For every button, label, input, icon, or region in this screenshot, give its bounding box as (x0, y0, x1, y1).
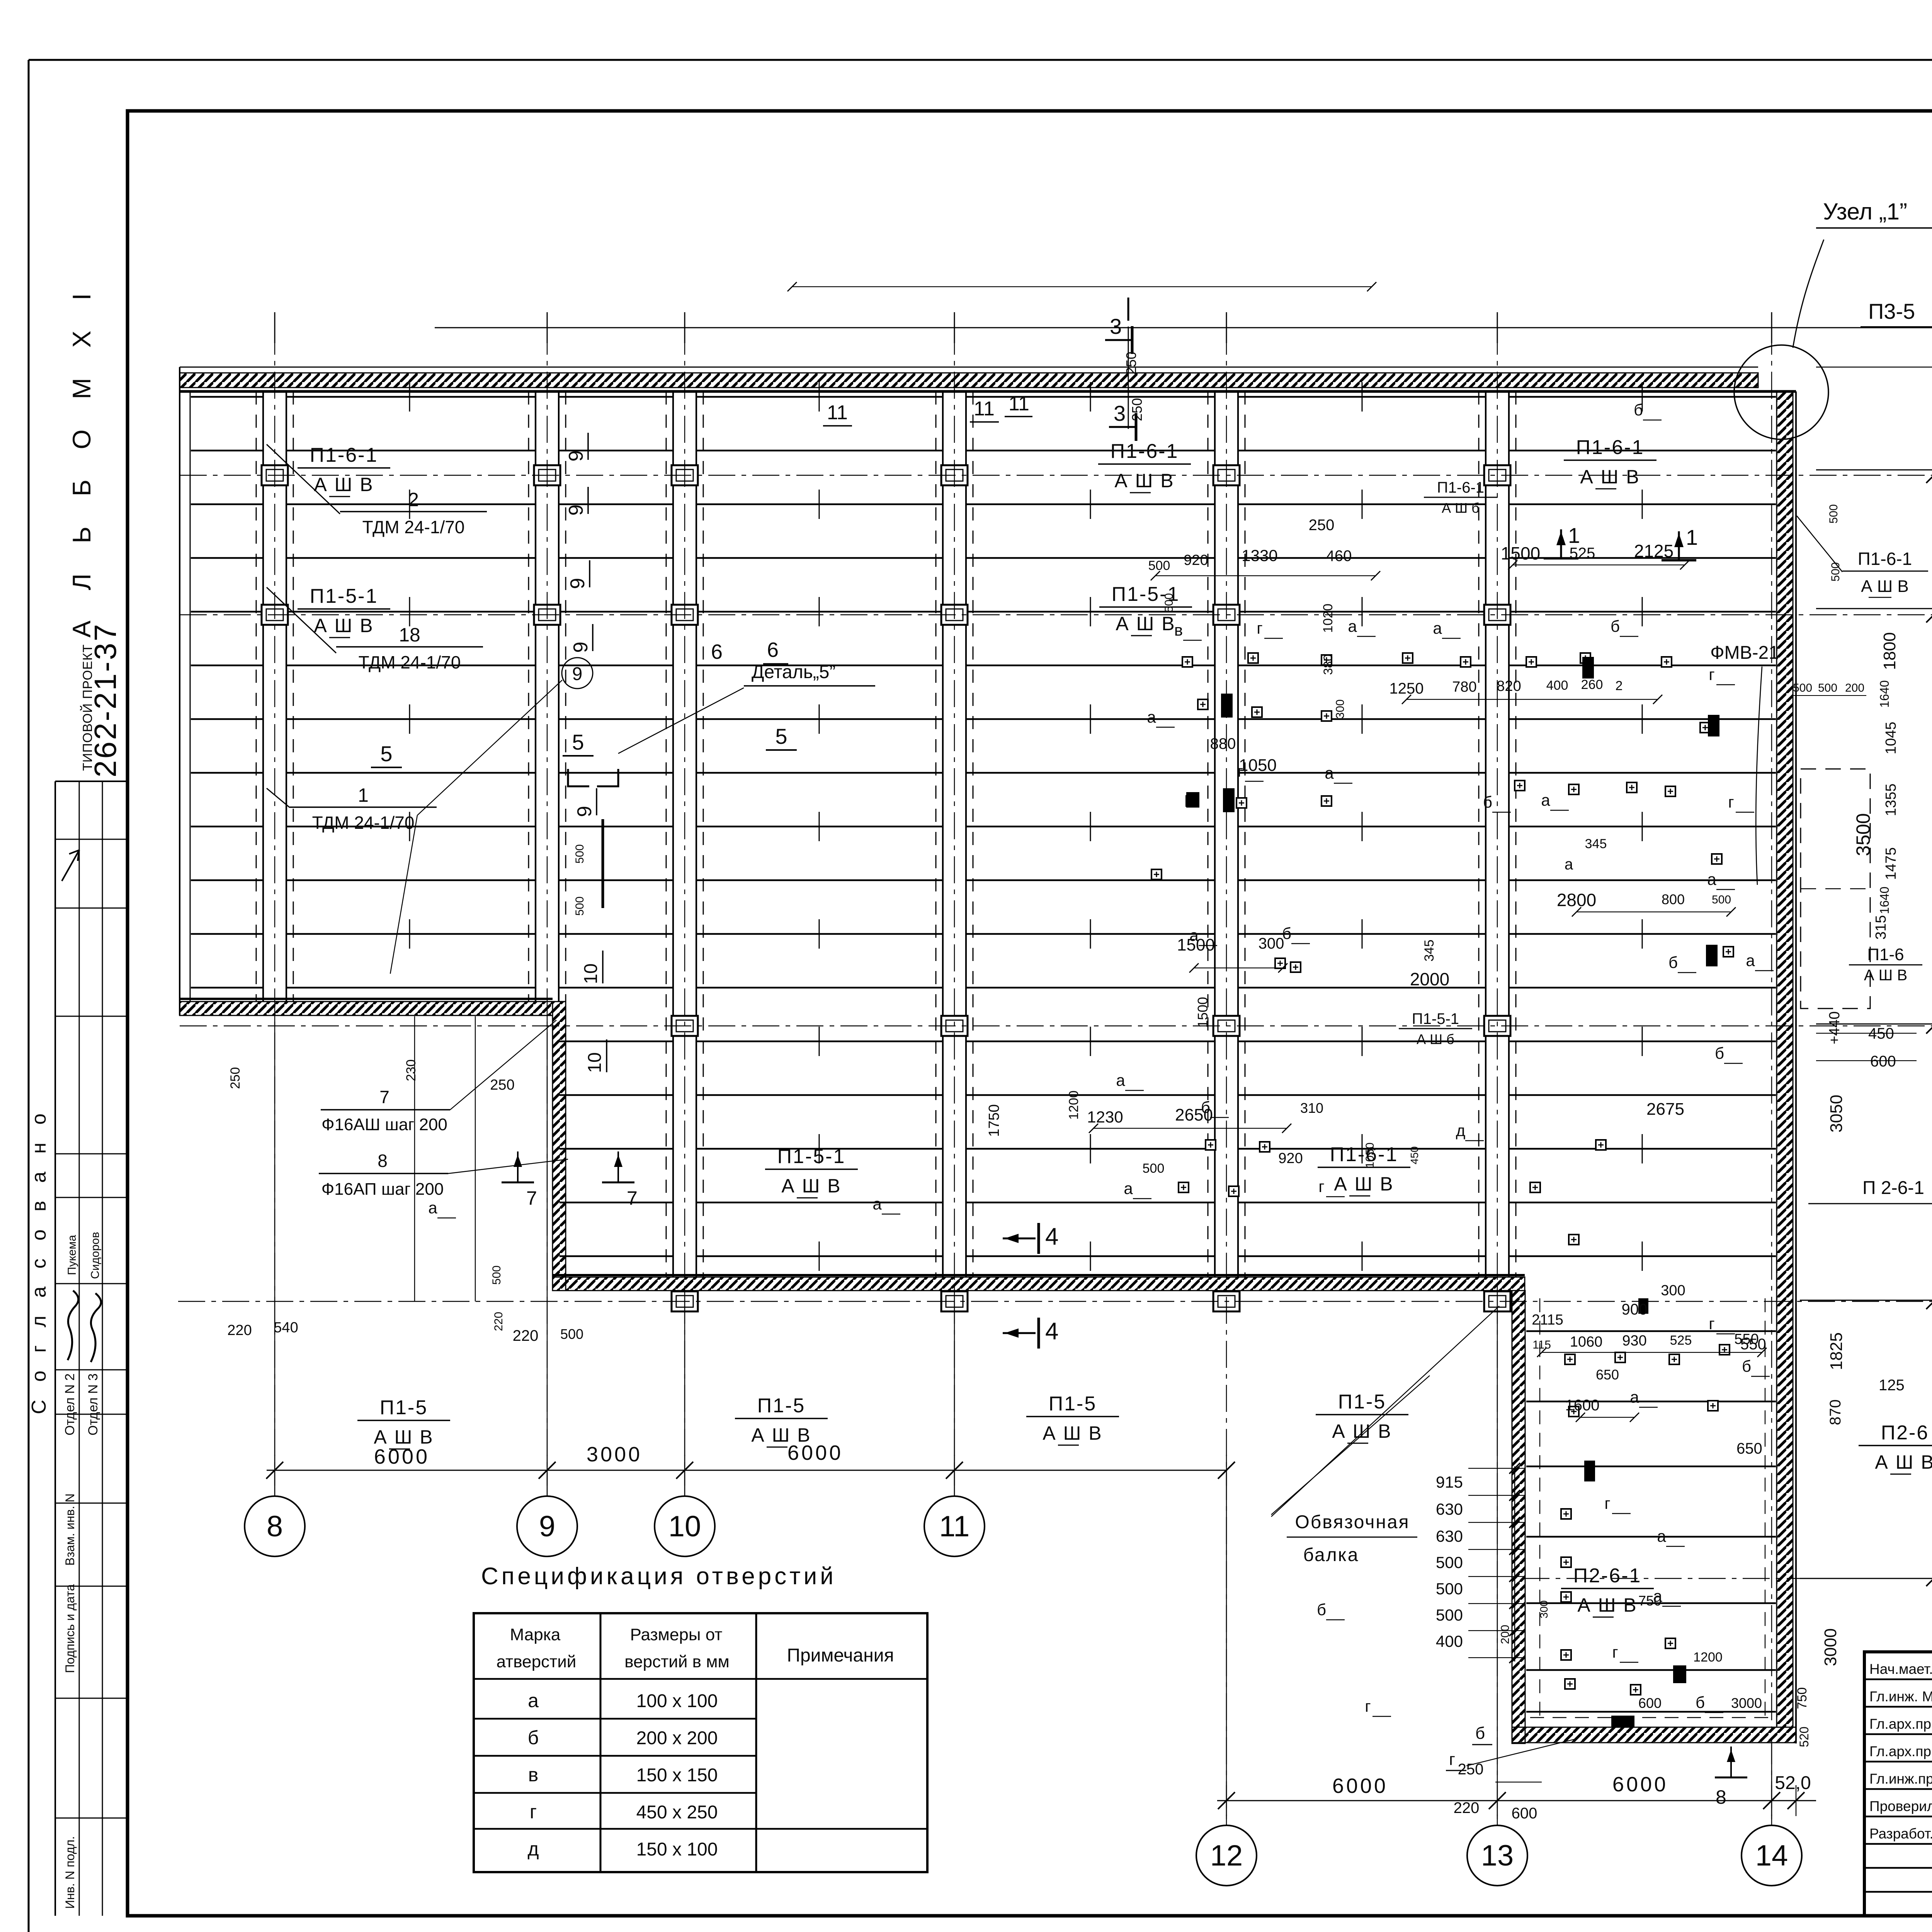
svg-text:630: 630 (1436, 1527, 1463, 1545)
svg-text:Ф16АШ шаг 200: Ф16АШ шаг 200 (321, 1115, 447, 1134)
svg-text:ТДМ 24-1/70: ТДМ 24-1/70 (359, 652, 461, 672)
svg-text:Разработ.: Разработ. (1869, 1826, 1932, 1842)
detail 5 bracket marks (568, 769, 618, 786)
section 3-3 line (1128, 327, 1129, 429)
svg-text:ТДМ 24-1/70: ТДМ 24-1/70 (362, 517, 465, 537)
svg-text:П1-5-1: П1-5-1 (1412, 1010, 1459, 1027)
axis 13 (1497, 328, 1498, 1825)
svg-text:г: г (1257, 619, 1262, 637)
svg-text:18: 18 (399, 624, 420, 646)
svg-text:5: 5 (775, 724, 787, 748)
svg-text:г: г (530, 1801, 537, 1823)
svg-text:ФМВ-21: ФМВ-21 (1710, 643, 1779, 663)
svg-text:А Ш В: А Ш В (1332, 1420, 1392, 1442)
svg-text:3000: 3000 (1731, 1695, 1762, 1711)
building top wall band (180, 373, 1758, 388)
svg-text:230: 230 (404, 1060, 418, 1082)
svg-text:б: б (1668, 953, 1678, 971)
wing dashed inset lines (1539, 1298, 1540, 1721)
svg-text:500: 500 (1436, 1580, 1463, 1598)
svg-text:г: г (1365, 1697, 1371, 1715)
svg-text:200: 200 (1845, 682, 1864, 694)
section mark 7/8 (617, 1151, 619, 1182)
svg-text:500: 500 (490, 1265, 503, 1285)
svg-text:9: 9 (565, 505, 587, 516)
svg-text:3050: 3050 (1827, 1095, 1846, 1133)
svg-text:3000: 3000 (587, 1443, 642, 1466)
svg-text:а: а (528, 1690, 539, 1711)
svg-text:250: 250 (490, 1077, 514, 1093)
svg-text:650: 650 (1596, 1367, 1619, 1383)
svg-text:д: д (527, 1838, 539, 1860)
left margin strip table (55, 781, 128, 782)
svg-text:б: б (1696, 1693, 1705, 1711)
axis E (180, 475, 1932, 476)
svg-text:1330: 1330 (1242, 546, 1277, 565)
svg-text:б: б (1282, 924, 1291, 942)
main block bottom wall band (553, 1277, 1525, 1291)
column axis strips (263, 391, 1509, 1277)
svg-text:9: 9 (570, 642, 592, 653)
svg-text:А Ш В: А Ш В (751, 1424, 811, 1446)
svg-text:б: б (1634, 401, 1643, 419)
svg-text:880: 880 (1210, 735, 1236, 752)
extension line (414, 1016, 415, 1301)
svg-text:150 х 150: 150 х 150 (636, 1765, 718, 1786)
svg-text:2125: 2125 (1634, 541, 1673, 561)
svg-text:125: 125 (1879, 1377, 1905, 1394)
embedded plate marks cluster bay 11-12 (1182, 657, 1192, 667)
svg-text:1355: 1355 (1883, 784, 1899, 816)
svg-text:П1-6: П1-6 (1867, 945, 1904, 964)
stem Г (1816, 1024, 1932, 1025)
section mark 1 (1678, 531, 1680, 560)
svg-text:250: 250 (1309, 517, 1335, 534)
svg-text:7: 7 (627, 1187, 638, 1209)
spec table (474, 1613, 927, 1872)
svg-text:б: б (1475, 1724, 1485, 1743)
detail circle Узел 1 (1734, 345, 1828, 439)
section flags (1105, 339, 1132, 341)
svg-text:315: 315 (1873, 915, 1889, 939)
svg-text:5: 5 (380, 742, 392, 766)
left block bottom wall band (180, 1002, 553, 1015)
svg-text:Пукема: Пукема (66, 1235, 78, 1275)
svg-text:820: 820 (1497, 678, 1521, 694)
stem А/1 (1816, 608, 1932, 609)
svg-text:262-21-37: 262-21-37 (88, 622, 122, 777)
svg-text:200: 200 (1499, 1625, 1512, 1644)
top wall upper line (180, 367, 1758, 368)
svg-text:780: 780 (1452, 679, 1476, 695)
bottom dimension line axes 8-12 (267, 1470, 1226, 1471)
svg-text:2: 2 (1616, 679, 1623, 693)
svg-text:П1-6-1: П1-6-1 (310, 444, 378, 466)
svg-text:930: 930 (1622, 1333, 1646, 1349)
svg-text:1475: 1475 (1883, 847, 1899, 880)
svg-text:а: а (1707, 870, 1716, 888)
svg-text:а: а (1541, 791, 1550, 809)
svg-text:А Ш б: А Ш б (1417, 1031, 1454, 1047)
svg-text:550: 550 (1734, 1331, 1759, 1347)
svg-text:500: 500 (1143, 1161, 1165, 1176)
svg-text:а: а (1657, 1527, 1666, 1545)
svg-text:А Ш В: А Ш В (1043, 1422, 1102, 1444)
svg-text:1500: 1500 (1501, 543, 1540, 563)
svg-text:9: 9 (539, 1510, 555, 1543)
svg-text:115: 115 (1532, 1338, 1551, 1351)
svg-text:2115: 2115 (1532, 1312, 1563, 1328)
svg-text:500: 500 (1829, 562, 1842, 582)
svg-text:250: 250 (1129, 398, 1145, 421)
svg-text:А Л Ь Б О М X I: А Л Ь Б О М X I (67, 282, 96, 638)
svg-text:11: 11 (939, 1510, 970, 1543)
svg-text:500: 500 (560, 1326, 583, 1342)
svg-text:б: б (1317, 1600, 1326, 1619)
svg-text:а: а (1433, 619, 1442, 637)
svg-text:52,0: 52,0 (1775, 1773, 1811, 1793)
svg-text:А Ш В: А Ш В (314, 615, 374, 636)
svg-text:2000: 2000 (1410, 969, 1449, 989)
svg-text:Гл.инж.пр.: Гл.инж.пр. (1869, 1771, 1932, 1787)
svg-text:1640: 1640 (1878, 680, 1891, 707)
svg-text:Взам. инв. N: Взам. инв. N (63, 1493, 77, 1566)
stem Е (1816, 469, 1932, 471)
svg-text:1800: 1800 (1880, 632, 1899, 670)
svg-text:1600: 1600 (1565, 1397, 1600, 1414)
svg-text:1: 1 (1686, 525, 1698, 549)
svg-text:100 х 100: 100 х 100 (636, 1691, 718, 1711)
svg-text:а: а (1147, 708, 1156, 726)
svg-text:б: б (1611, 617, 1620, 635)
top dim tie (1816, 367, 1932, 368)
svg-text:1750: 1750 (986, 1104, 1002, 1137)
svg-text:500: 500 (1436, 1553, 1463, 1571)
svg-text:а: а (1348, 617, 1357, 635)
svg-text:11: 11 (1009, 393, 1029, 415)
svg-text:П1-5: П1-5 (1049, 1393, 1097, 1415)
svg-text:г: г (1728, 793, 1734, 811)
wing left wall band (1512, 1291, 1525, 1743)
svg-text:310: 310 (1300, 1100, 1323, 1116)
left block bottom bold (180, 998, 553, 1000)
svg-text:П1-6-1: П1-6-1 (1858, 549, 1912, 569)
svg-text:500: 500 (1712, 893, 1731, 906)
svg-text:А Ш В: А Ш В (1577, 1594, 1637, 1616)
axis 10 (684, 328, 685, 1496)
svg-text:в: в (1174, 621, 1183, 639)
axis A/1 (180, 614, 1932, 616)
svg-text:10: 10 (581, 963, 601, 984)
axis circle 12 (1196, 1825, 1257, 1886)
svg-text:А Ш В: А Ш В (1334, 1173, 1394, 1195)
svg-text:г: г (1709, 1315, 1714, 1333)
svg-text:2675: 2675 (1646, 1100, 1684, 1119)
svg-text:а: а (1630, 1388, 1639, 1406)
svg-text:Деталь„5”: Деталь„5” (752, 662, 835, 682)
svg-text:а: а (1124, 1179, 1133, 1197)
svg-text:600: 600 (1512, 1805, 1537, 1822)
svg-text:г: г (1604, 1494, 1610, 1512)
svg-text:1050: 1050 (1239, 756, 1277, 775)
svg-text:500: 500 (573, 896, 586, 916)
svg-text:10: 10 (585, 1052, 605, 1073)
svg-text:300: 300 (1538, 1600, 1550, 1619)
svg-text:7: 7 (526, 1187, 537, 1209)
floor slab edge lines (191, 397, 1776, 1256)
svg-text:250: 250 (1458, 1761, 1484, 1778)
svg-text:А Ш В: А Ш В (1864, 967, 1907, 984)
svg-text:1200: 1200 (1693, 1650, 1723, 1665)
svg-text:А Ш В: А Ш В (1875, 1451, 1932, 1473)
svg-text:1825: 1825 (1827, 1332, 1846, 1370)
svg-text:500: 500 (1148, 558, 1170, 573)
svg-text:8: 8 (378, 1151, 388, 1171)
svg-text:6: 6 (711, 640, 723, 663)
svg-text:1250: 1250 (1389, 680, 1424, 697)
outer frame top (29, 59, 1932, 61)
svg-text:ТДМ 24-1/70: ТДМ 24-1/70 (312, 813, 415, 833)
svg-text:П 2-6-1: П 2-6-1 (1862, 1178, 1924, 1198)
svg-text:3: 3 (1114, 401, 1126, 425)
title block outline (1864, 1652, 1932, 1916)
axis Г (180, 1026, 1932, 1027)
axis 11 (954, 328, 955, 1496)
svg-text:300: 300 (1334, 699, 1347, 719)
svg-text:Узел „1”: Узел „1” (1823, 199, 1907, 224)
axis circle 14 (1742, 1825, 1802, 1886)
monolithic dashed area right of axis 14 (1801, 769, 1870, 1009)
stem Б (1800, 1578, 1932, 1579)
svg-text:а: а (428, 1199, 437, 1217)
svg-text:1500: 1500 (1195, 997, 1211, 1028)
svg-text:Отдел N 2: Отдел N 2 (63, 1373, 77, 1435)
svg-text:1640: 1640 (1878, 886, 1891, 914)
svg-text:П1-5: П1-5 (380, 1396, 428, 1419)
svg-text:11: 11 (827, 401, 848, 424)
svg-text:Спецификация отверстий: Спецификация отверстий (481, 1563, 837, 1590)
svg-text:14: 14 (1755, 1839, 1788, 1872)
axis 14 (1771, 328, 1772, 1825)
svg-text:б: б (1742, 1357, 1751, 1375)
svg-text:а: а (1116, 1071, 1125, 1089)
svg-text:9: 9 (572, 664, 583, 684)
svg-text:220: 220 (1454, 1799, 1480, 1816)
svg-text:г: г (1318, 1177, 1324, 1196)
svg-text:300: 300 (1259, 935, 1284, 952)
section mark 4 (1003, 1238, 1036, 1240)
svg-text:13: 13 (1481, 1839, 1514, 1872)
svg-text:4: 4 (1045, 1223, 1058, 1250)
svg-text:7: 7 (379, 1087, 389, 1107)
svg-text:П1-5-1: П1-5-1 (310, 585, 378, 607)
bottom dimension line axes 12-14 (1217, 1800, 1816, 1801)
detail circle 9 (562, 658, 593, 689)
svg-text:А Ш В: А Ш В (1861, 577, 1908, 596)
svg-text:525: 525 (1570, 545, 1595, 562)
svg-text:6000: 6000 (1332, 1774, 1388, 1798)
svg-text:150 х 100: 150 х 100 (636, 1839, 718, 1860)
svg-text:г: г (1709, 665, 1714, 684)
svg-text:500: 500 (1827, 504, 1840, 524)
svg-text:П1-6-1: П1-6-1 (1576, 436, 1645, 459)
svg-text:220: 220 (513, 1327, 539, 1344)
svg-text:А Ш В: А Ш В (781, 1175, 841, 1197)
bay center tick marks (410, 382, 1642, 1271)
svg-text:Сидоров: Сидоров (89, 1232, 102, 1279)
svg-text:П1-5: П1-5 (1338, 1391, 1386, 1413)
svg-text:верстий в мм: верстий в мм (624, 1652, 729, 1671)
svg-text:Обвязочная: Обвязочная (1295, 1512, 1410, 1532)
axis В (178, 1301, 1932, 1302)
svg-text:520: 520 (1797, 1726, 1811, 1747)
svg-text:П2-6-1: П2-6-1 (1573, 1565, 1642, 1587)
svg-text:1060: 1060 (1570, 1334, 1603, 1350)
axis extension ticks top (274, 312, 276, 343)
svg-text:П2-6: П2-6 (1881, 1422, 1929, 1444)
section mark 1 (1560, 529, 1562, 558)
svg-text:525: 525 (1670, 1333, 1692, 1348)
extension line (475, 1016, 476, 1301)
svg-text:Отдел N 3: Отдел N 3 (86, 1373, 100, 1435)
svg-text:А Ш В: А Ш В (1580, 466, 1640, 488)
svg-text:г: г (1237, 762, 1243, 780)
axis 8 (274, 328, 275, 1496)
strip signatures (68, 1291, 78, 1360)
outer frame left (28, 60, 30, 1932)
svg-text:П3-5: П3-5 (1868, 299, 1915, 323)
svg-text:3000: 3000 (1821, 1628, 1840, 1666)
svg-text:750: 750 (1795, 1687, 1810, 1709)
svg-text:Гл.инж. М.: Гл.инж. М. (1869, 1689, 1932, 1704)
svg-text:А Ш В: А Ш В (1114, 470, 1174, 492)
svg-text:а: а (1325, 764, 1334, 782)
svg-text:П1-6-1: П1-6-1 (1437, 479, 1484, 496)
svg-text:П1-5: П1-5 (757, 1395, 806, 1417)
column blocks (262, 465, 288, 485)
top slab boundary bold (180, 390, 1796, 393)
building left edge double line (179, 367, 180, 1015)
svg-text:500: 500 (1436, 1606, 1463, 1624)
svg-text:а: а (1653, 1587, 1662, 1605)
svg-text:920: 920 (1278, 1150, 1303, 1167)
svg-text:1: 1 (1568, 523, 1580, 548)
svg-text:1: 1 (358, 784, 369, 806)
building right wall band (1777, 391, 1793, 1727)
svg-text:6: 6 (767, 638, 779, 662)
svg-text:б: б (528, 1727, 539, 1748)
wing slab lines (1526, 1331, 1776, 1712)
svg-text:г: г (1612, 1643, 1618, 1661)
svg-text:а: а (872, 1195, 882, 1213)
svg-text:д: д (1456, 1121, 1466, 1139)
axis circle 8 (245, 1496, 305, 1556)
svg-text:б: б (1201, 1098, 1210, 1116)
svg-text:Инв. N подл.: Инв. N подл. (63, 1836, 77, 1909)
svg-text:9: 9 (573, 806, 596, 817)
svg-text:1045: 1045 (1883, 722, 1899, 755)
svg-text:а: а (1189, 926, 1199, 944)
svg-text:Ф16АП шаг 200: Ф16АП шаг 200 (321, 1180, 444, 1199)
axis 9 (547, 328, 548, 1496)
svg-text:220: 220 (492, 1312, 505, 1331)
svg-text:600: 600 (1870, 1053, 1896, 1070)
svg-text:г: г (1449, 1750, 1455, 1769)
svg-text:8: 8 (1716, 1786, 1726, 1808)
svg-text:915: 915 (1436, 1473, 1463, 1491)
axis circle 10 (655, 1496, 715, 1556)
svg-text:1020: 1020 (1321, 604, 1335, 633)
svg-text:А Ш В: А Ш В (1116, 613, 1175, 634)
svg-text:П1-5-1: П1-5-1 (777, 1145, 846, 1168)
svg-text:А Ш б: А Ш б (1442, 500, 1480, 516)
axis 12 (1226, 328, 1227, 1825)
axis circle 11 (924, 1496, 985, 1556)
right wall outer line (1795, 391, 1797, 1743)
svg-text:5: 5 (572, 730, 584, 754)
wing dim ladder (1514, 1466, 1515, 1662)
svg-text:Гл.арх.пр.: Гл.арх.пр. (1869, 1716, 1932, 1732)
strip arrow mark (62, 850, 79, 881)
svg-text:600: 600 (1638, 1695, 1662, 1711)
svg-text:500: 500 (573, 844, 586, 864)
svg-text:балка: балка (1303, 1545, 1359, 1565)
svg-text:250: 250 (228, 1067, 243, 1089)
svg-text:3: 3 (1110, 314, 1122, 338)
svg-text:260: 260 (1581, 677, 1603, 692)
svg-text:Гл.арх.пр.: Гл.арх.пр. (1869, 1743, 1932, 1759)
svg-text:650: 650 (1736, 1440, 1762, 1457)
axis circle 9 (517, 1496, 577, 1556)
svg-text:атверстий: атверстий (497, 1652, 577, 1671)
svg-text:500: 500 (1163, 593, 1175, 612)
wing bottom wall band (1512, 1727, 1796, 1743)
svg-text:11: 11 (974, 398, 995, 420)
svg-text:в: в (528, 1764, 539, 1786)
svg-text:А Ш В: А Ш В (374, 1426, 434, 1448)
svg-text:345: 345 (1585, 837, 1607, 851)
svg-text:400: 400 (1436, 1632, 1463, 1650)
svg-text:870: 870 (1827, 1400, 1844, 1425)
svg-text:250: 250 (1123, 352, 1139, 375)
svg-text:Проверил: Проверил (1869, 1798, 1932, 1814)
axis circle 13 (1467, 1825, 1527, 1886)
svg-text:500: 500 (1818, 682, 1837, 694)
svg-text:900: 900 (1622, 1301, 1648, 1318)
svg-text:2: 2 (408, 489, 419, 510)
svg-text:А Ш В: А Ш В (314, 474, 374, 495)
svg-text:300: 300 (1661, 1282, 1685, 1299)
svg-text:а: а (1565, 856, 1573, 873)
wall step between axis 9 block and main block (553, 1002, 566, 1291)
main block bottom bold (553, 1274, 1525, 1276)
svg-text:Размеры от: Размеры от (630, 1625, 723, 1644)
svg-text:450 х 250: 450 х 250 (636, 1802, 718, 1823)
section mark 4 (1003, 1332, 1036, 1334)
svg-text:920: 920 (1184, 552, 1208, 568)
svg-text:400: 400 (1546, 678, 1568, 693)
svg-text:500: 500 (1793, 682, 1812, 694)
svg-text:380: 380 (1321, 654, 1335, 675)
svg-text:а: а (1746, 951, 1755, 969)
svg-text:Марка: Марка (510, 1625, 561, 1644)
svg-text:450: 450 (1408, 1146, 1420, 1165)
svg-text:630: 630 (1436, 1500, 1463, 1518)
axis Б (1522, 1578, 1932, 1579)
svg-text:9: 9 (565, 451, 587, 462)
svg-text:б: б (1483, 793, 1492, 811)
svg-text:220: 220 (227, 1322, 252, 1338)
